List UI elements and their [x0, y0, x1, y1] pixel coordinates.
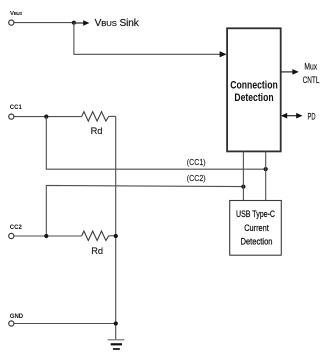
node GND [9, 314, 24, 326]
junction [44, 234, 48, 238]
junction [114, 234, 118, 238]
svg-text:VBUS Sink: VBUS Sink [95, 18, 140, 29]
node CC2 [9, 225, 23, 238]
svg-text:Rd: Rd [91, 246, 103, 256]
wire [74, 22, 84, 24]
svg-text:Current: Current [244, 223, 269, 233]
svg-text:Mux: Mux [304, 61, 317, 71]
arrowhead PD right [296, 113, 302, 119]
arrowhead to VBUS Sink [83, 20, 89, 25]
wire CC2 tap [46, 185, 243, 236]
svg-text:(CC1): (CC1) [187, 157, 206, 167]
arrowhead into Connection Detection [220, 51, 227, 57]
wire [14, 116, 82, 118]
resistor R1 Rd [82, 112, 109, 136]
wire [74, 23, 220, 55]
wire PD [286, 115, 298, 117]
svg-text:PD: PD [308, 111, 316, 121]
wire [14, 323, 116, 325]
svg-text:GND: GND [10, 314, 24, 320]
svg-text:Rd: Rd [91, 126, 103, 136]
junction [114, 321, 118, 325]
junction [72, 21, 76, 25]
arrowhead PD left [281, 113, 287, 119]
resistor R2 Rd [82, 231, 109, 256]
svg-text:Connection: Connection [230, 80, 278, 92]
wire [14, 235, 82, 237]
svg-text:VBUS: VBUS [10, 11, 22, 17]
block U1 Connection Detection [227, 28, 281, 151]
wire vertical to ground rail [115, 116, 117, 339]
wire [109, 235, 116, 237]
svg-text:CC2: CC2 [10, 225, 23, 231]
arrowhead Mux CNTL [292, 69, 298, 75]
svg-text:Detection: Detection [234, 92, 273, 104]
label Mux CNTL [303, 61, 320, 85]
junction [44, 115, 48, 119]
wire [14, 22, 74, 24]
junction [264, 167, 268, 171]
svg-text:USB Type-C: USB Type-C [236, 209, 275, 219]
svg-text:CC1: CC1 [10, 105, 23, 111]
node CC1 [9, 105, 23, 119]
block U2 USB Type-C Current Detection [230, 201, 282, 256]
svg-text:Detection: Detection [241, 236, 273, 246]
node VBUS [9, 11, 23, 25]
junction [241, 185, 245, 189]
wire Mux CNTL [281, 71, 293, 73]
svg-text:CNTL: CNTL [303, 75, 320, 85]
svg-text:(CC2): (CC2) [187, 173, 206, 183]
wire block to block right [265, 151, 267, 200]
wire CC1 tap [46, 117, 265, 170]
wire [109, 115, 116, 117]
wire block to block left [242, 151, 244, 200]
ground [108, 340, 125, 349]
